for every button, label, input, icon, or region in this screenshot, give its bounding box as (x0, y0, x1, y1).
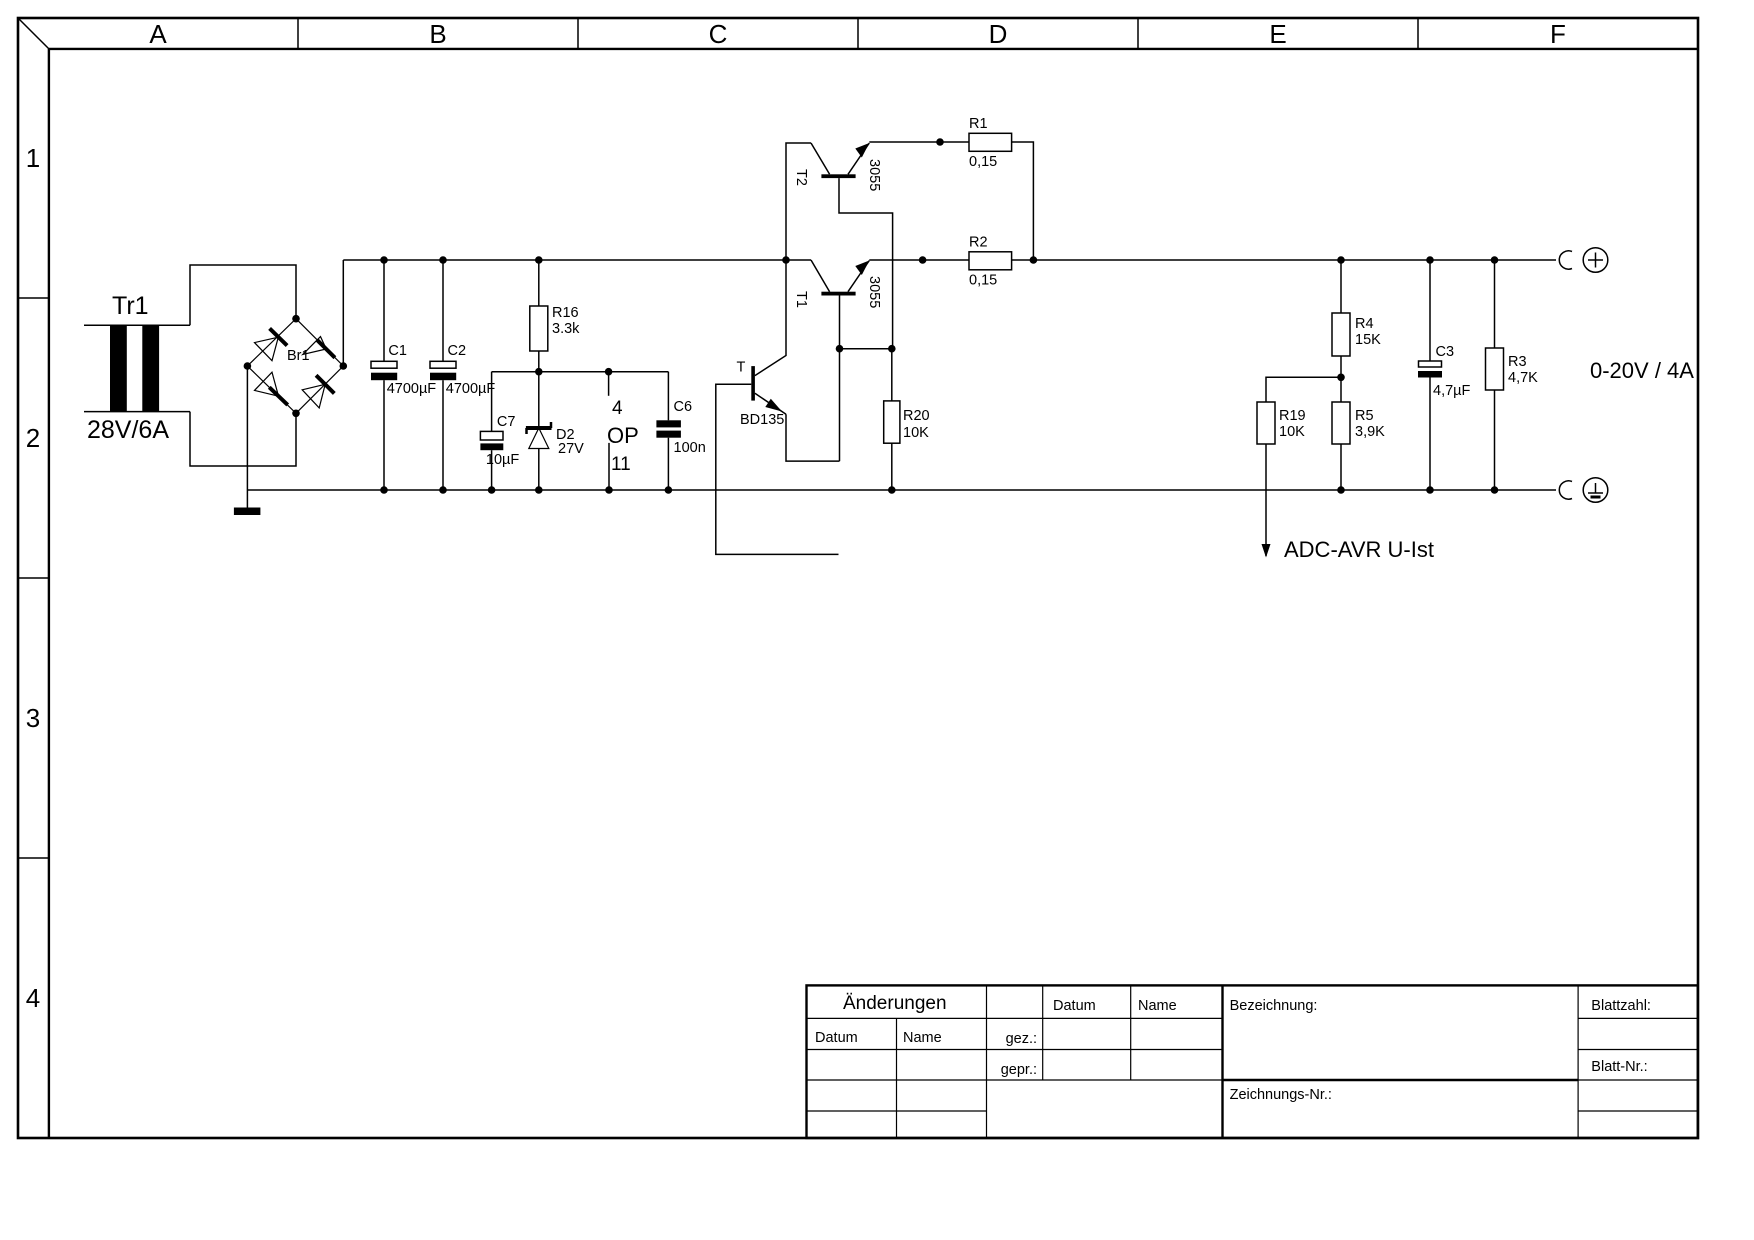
svg-text:Änderungen: Änderungen (843, 993, 947, 1014)
node bridge AC2 (292, 410, 300, 418)
grid row divider 2-3 (18, 577, 49, 579)
svg-text:T: T (737, 360, 746, 376)
svg-text:0,15: 0,15 (969, 154, 997, 170)
diode Br1 bottom-left (269, 387, 287, 405)
node R4 top (1337, 256, 1345, 264)
svg-text:D: D (989, 19, 1008, 49)
transistor T2 (786, 143, 882, 260)
svg-text:R3: R3 (1508, 354, 1527, 370)
CONTROL (0, 0, 1, 1)
node R16 bottom junction (535, 368, 543, 376)
svg-text:0,15: 0,15 (969, 273, 997, 289)
svg-text:Blatt-Nr.:: Blatt-Nr.: (1591, 1059, 1647, 1075)
node T collector rail (782, 256, 790, 264)
capacitor C1 (371, 260, 436, 490)
POWER (84, 116, 1694, 562)
svg-text:4,7µF: 4,7µF (1433, 383, 1471, 399)
svg-text:Blattzahl:: Blattzahl: (1591, 998, 1651, 1014)
node C6 bottom (665, 486, 673, 494)
node C7 bottom (488, 486, 496, 494)
svg-text:4: 4 (612, 398, 623, 419)
svg-text:3055: 3055 (866, 276, 882, 308)
node D2 bottom (535, 486, 543, 494)
svg-text:28V/6A: 28V/6A (87, 416, 169, 444)
wire R1 right to output node (1012, 142, 1034, 260)
svg-text:ADC-AVR U-Ist: ADC-AVR U-Ist (1284, 537, 1434, 562)
wire T2 emitter to R1 (869, 141, 969, 143)
svg-text:3,9K: 3,9K (1355, 424, 1385, 440)
op-amp power label OP (607, 398, 639, 475)
svg-text:F: F (1550, 19, 1566, 49)
svg-text:T1: T1 (793, 291, 809, 308)
svg-text:gez.:: gez.: (1006, 1031, 1037, 1047)
wire 0V rail (247, 489, 1556, 491)
node output sense R9 (919, 256, 927, 264)
svg-text:3: 3 (26, 703, 40, 733)
svg-text:R16: R16 (552, 305, 579, 321)
title block vertical Datum/Name divider (896, 1018, 898, 1138)
svg-text:4700µF: 4700µF (387, 381, 437, 397)
node C3 top (1426, 256, 1434, 264)
terminal plus arc (1559, 251, 1572, 269)
node C3 bottom (1426, 486, 1434, 494)
svg-text:Br1: Br1 (287, 348, 310, 364)
title block outline (807, 985, 1698, 1138)
svg-text:C2: C2 (448, 343, 467, 359)
svg-text:C1: C1 (388, 343, 407, 359)
svg-text:C6: C6 (674, 399, 693, 415)
capacitor C2 (430, 260, 495, 490)
title block vertical Aenderungen right (986, 985, 988, 1138)
wire bridge minus to 0V rail (246, 366, 248, 508)
svg-text:Zeichnungs-Nr.:: Zeichnungs-Nr.: (1230, 1087, 1332, 1103)
resistor R20 (884, 349, 930, 490)
svg-text:10µF: 10µF (486, 452, 519, 468)
terminal ground arc (1559, 481, 1572, 499)
node bridge minus (244, 362, 252, 370)
node C2 bottom (439, 486, 447, 494)
svg-text:R19: R19 (1279, 408, 1306, 424)
title block row line 2 (807, 1049, 1223, 1051)
wire T2 base (839, 178, 893, 349)
svg-text:Name: Name (903, 1030, 942, 1046)
resistor R4 (1332, 260, 1381, 402)
title block vertical gez label col (1042, 985, 1044, 1080)
svg-text:3.3k: 3.3k (552, 321, 580, 337)
svg-text:R4: R4 (1355, 316, 1374, 332)
svg-text:T2: T2 (793, 169, 809, 186)
node R20 bottom (888, 486, 896, 494)
svg-text:R5: R5 (1355, 408, 1374, 424)
grid column divider B-C (577, 18, 579, 49)
resistor R3 (1486, 260, 1539, 490)
svg-text:11: 11 (611, 454, 631, 475)
border frame inner band lines (49, 48, 1698, 50)
node base R20 (888, 345, 896, 353)
TITLEBLOCK (807, 985, 1699, 1138)
svg-text:C3: C3 (1436, 344, 1455, 360)
node R16 top (535, 256, 543, 264)
node C1 top (380, 256, 388, 264)
svg-text:Datum: Datum (815, 1030, 858, 1046)
op power pin 4 stub (608, 372, 610, 396)
svg-text:15K: 15K (1355, 332, 1381, 348)
title block vertical Blattzahl divider (1577, 985, 1579, 1138)
wire transformer bottom to bridge AC2 (190, 412, 296, 466)
svg-text:2: 2 (26, 423, 40, 453)
capacitor C3 (1418, 260, 1471, 490)
svg-text:4700µF: 4700µF (446, 381, 496, 397)
title block row line 4 (807, 1110, 987, 1112)
node C2 top (439, 256, 447, 264)
svg-text:R20: R20 (903, 408, 930, 424)
wire bridge plus to V+ rail (342, 260, 344, 366)
svg-text:gepr.:: gepr.: (1001, 1062, 1037, 1078)
wire BD135 emitter to base node (786, 414, 840, 461)
diode Br1 top-right (317, 340, 335, 358)
capacitor C6 (656, 372, 705, 490)
svg-text:27V: 27V (558, 441, 584, 457)
grid column divider A-B (297, 18, 299, 49)
svg-text:1: 1 (26, 143, 40, 173)
svg-text:R1: R1 (969, 116, 988, 132)
node op pin4 (605, 368, 613, 376)
svg-text:R2: R2 (969, 235, 988, 251)
node output R1R2 join (1030, 256, 1038, 264)
node C1 bottom (380, 486, 388, 494)
wire transformer top to bridge AC1 (190, 265, 296, 325)
op power pin 11 stub (608, 443, 610, 490)
node op pin11 bottom (605, 486, 613, 494)
transistor T1 (793, 260, 882, 308)
node R1 left (936, 138, 944, 146)
wire output line (1012, 259, 1556, 261)
transistor T BD135 (737, 260, 787, 428)
wire transformer primary top lead (84, 324, 190, 326)
node R5 bottom (1337, 486, 1345, 494)
svg-text:0-20V / 4A: 0-20V / 4A (1590, 358, 1694, 383)
svg-text:B: B (429, 19, 446, 49)
svg-text:3055: 3055 (866, 159, 882, 191)
svg-text:4: 4 (26, 983, 40, 1013)
node bridge AC1 (292, 315, 300, 323)
svg-text:4,7K: 4,7K (1508, 370, 1538, 386)
svg-text:100n: 100n (674, 440, 706, 456)
wire transformer primary bottom lead (84, 411, 190, 413)
wire T1 emitter to R2 (869, 259, 969, 261)
node R3 top (1491, 256, 1499, 264)
ground symbol at bridge (234, 508, 261, 516)
title block vertical Bezeichnung divider (1221, 985, 1223, 1138)
wire BD135 base (716, 384, 839, 554)
wire V+ rail (343, 259, 811, 261)
resistor R1 (969, 116, 1012, 170)
grid row divider 1-2 (18, 297, 49, 299)
svg-text:Tr1: Tr1 (112, 292, 149, 320)
svg-text:A: A (149, 19, 167, 49)
title block row line 3 (807, 1079, 1223, 1081)
wire base junction horizontal (840, 348, 892, 350)
grid column divider E-F (1417, 18, 1419, 49)
grid column divider C-D (857, 18, 859, 49)
node R3 bottom (1491, 486, 1499, 494)
node R4 R5 junction (1337, 374, 1345, 382)
svg-text:Name: Name (1138, 998, 1177, 1014)
terminal ground circle (1583, 478, 1608, 503)
resistor R19 (1257, 377, 1341, 556)
capacitor C7 (480, 372, 519, 490)
node bridge plus (340, 362, 348, 370)
wire T1 base (839, 296, 841, 462)
svg-text:E: E (1269, 19, 1286, 49)
diode Br1 top-left (270, 328, 288, 345)
svg-text:BD135: BD135 (740, 412, 784, 428)
svg-text:OP: OP (607, 423, 639, 448)
bridge rectifier Br1 (247, 319, 343, 414)
terminal plus circle (1583, 248, 1608, 273)
title block vertical mid Datum/Name divider (1130, 985, 1132, 1080)
svg-text:10K: 10K (903, 425, 929, 441)
svg-text:C7: C7 (497, 414, 516, 430)
svg-text:C: C (709, 19, 728, 49)
arrow ADC-AVR U-Ist (1262, 544, 1271, 558)
diode Br1 bottom-right (316, 375, 334, 393)
grid row divider 3-4 (18, 857, 49, 859)
svg-text:Datum: Datum (1053, 998, 1096, 1014)
resistor R5 (1332, 402, 1385, 490)
resistor R2 (969, 235, 1012, 289)
svg-text:Bezeichnung:: Bezeichnung: (1230, 998, 1318, 1014)
svg-text:10K: 10K (1279, 424, 1305, 440)
wire op power line (492, 371, 669, 373)
zener diode D2 (526, 422, 584, 490)
title block row line 1 (807, 1017, 1223, 1019)
grid column divider D-E (1137, 18, 1139, 49)
transformer Tr1 (87, 292, 169, 444)
resistor R16 (530, 260, 580, 428)
node base T1 (836, 345, 844, 353)
